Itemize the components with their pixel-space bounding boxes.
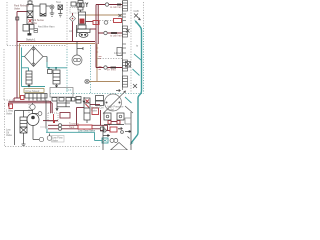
svg-text:Switch 1: Switch 1 [26,38,36,41]
svg-text:Valve: Valve [14,7,21,10]
svg-text:4wd Wire Harn: 4wd Wire Harn [38,25,55,28]
svg-text:Valve: Valve [6,134,13,137]
svg-text:Suction Scr: Suction Scr [36,100,49,103]
svg-text:to cab harn: to cab harn [110,6,123,9]
svg-text:B+ feed: B+ feed [107,69,116,72]
svg-text:AC: AC [118,128,122,131]
svg-text:Relief: Relief [108,108,115,111]
svg-text:Valve: Valve [91,109,98,112]
svg-text:Jct: Jct [69,30,73,33]
svg-text:14 GA: 14 GA [114,52,121,55]
svg-text:Valve: Valve [52,139,59,142]
svg-text:Tank: Tank [69,126,75,129]
svg-text:Valve: Valve [31,22,38,25]
svg-text:to cab harn: to cab harn [110,35,123,38]
svg-text:CAB: CAB [134,10,139,13]
svg-text:Drive Speed: Drive Speed [26,90,40,93]
svg-text:Valve: Valve [6,112,13,115]
svg-text:Low Seat Valve: Low Seat Valve [78,129,96,132]
svg-text:Test: Test [56,1,61,4]
